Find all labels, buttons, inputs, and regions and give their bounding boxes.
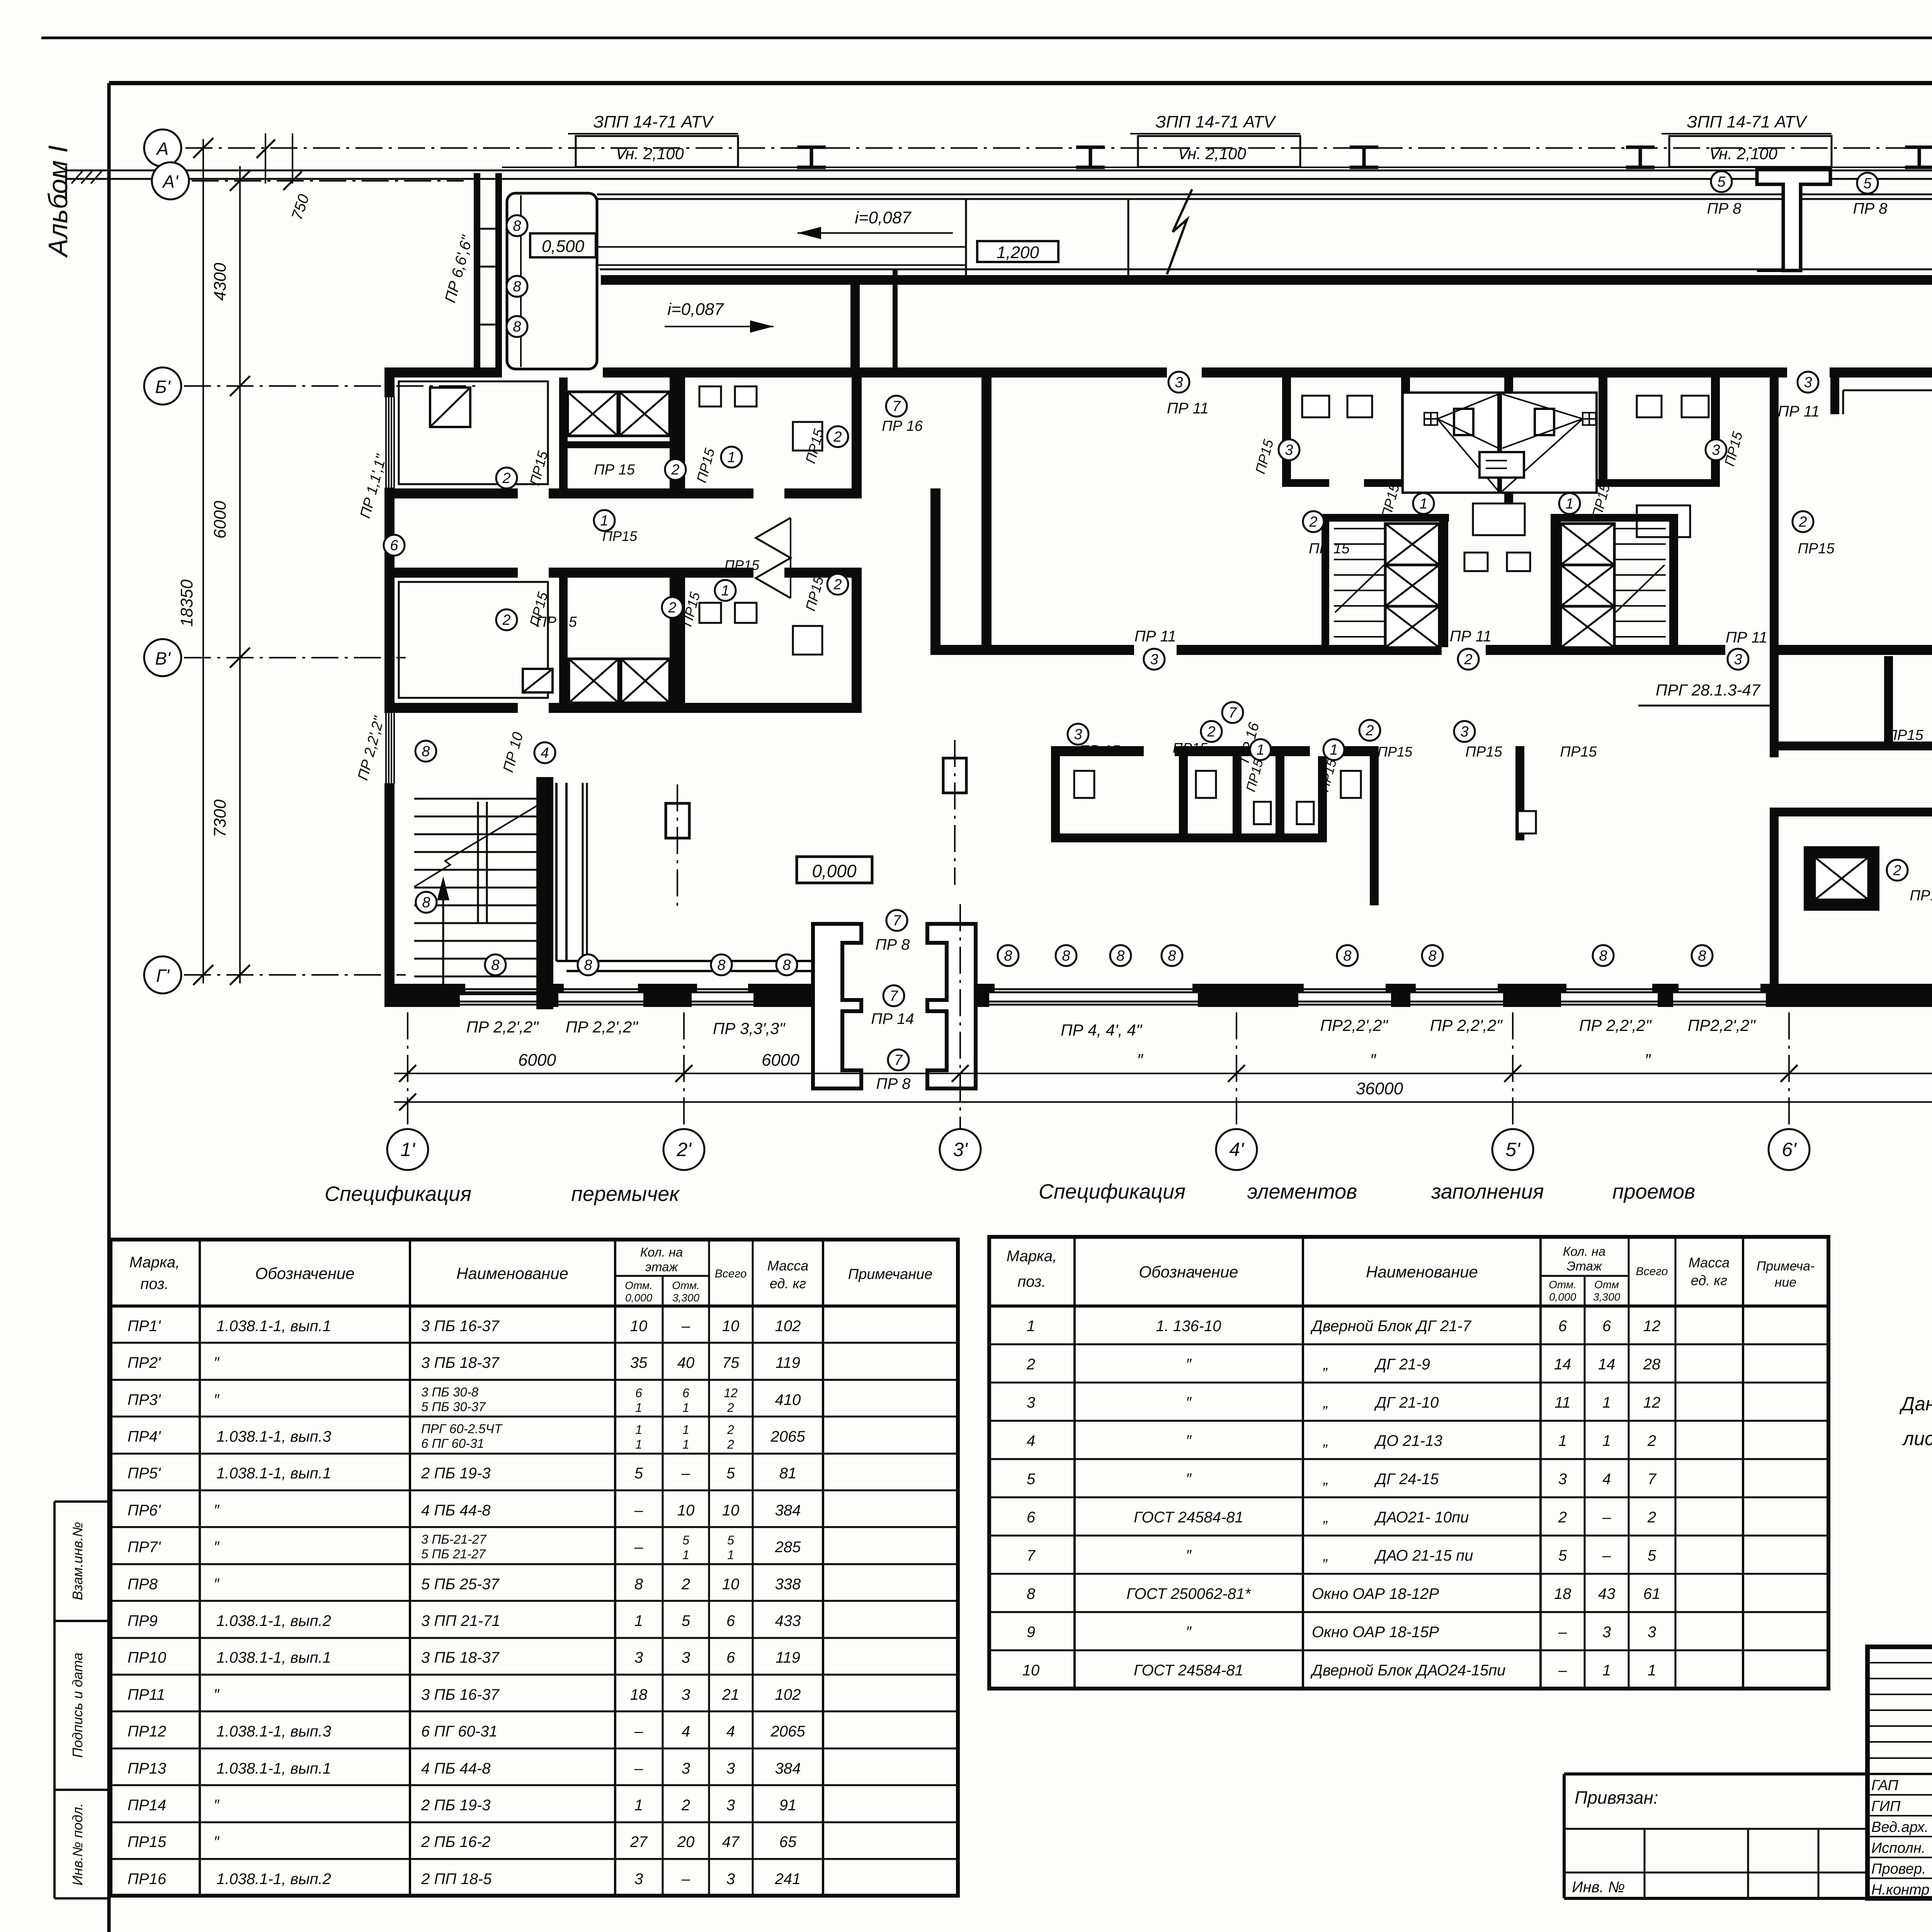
lintel table row texts [128,1318,805,1888]
svg-text:элементов: элементов [1247,1180,1357,1203]
svg-text:1.038.1-1, вып.1: 1.038.1-1, вып.1 [216,1465,331,1482]
svg-text:410: 410 [775,1391,801,1408]
svg-text:1: 1 [634,1797,643,1814]
svg-text:8: 8 [1004,948,1012,964]
svg-text:∇н. 2,100: ∇н. 2,100 [614,145,684,163]
svg-text:„: „ [1323,1471,1328,1488]
svg-text:ПР 11: ПР 11 [1134,628,1176,645]
svg-text:ние: ние [1775,1275,1797,1290]
svg-text:3 ПБ 18-37: 3 ПБ 18-37 [421,1649,500,1666]
svg-text:1: 1 [1648,1662,1656,1679]
svg-text:А: А [156,139,169,159]
svg-text:Примечание: Примечание [848,1266,933,1282]
svg-text:338: 338 [775,1576,801,1593]
svg-text:7: 7 [889,988,898,1004]
svg-text:Окно ОАР 18-15Р: Окно ОАР 18-15Р [1312,1624,1439,1641]
right rooms walls [1779,742,1884,750]
svg-text:Отм.: Отм. [625,1279,653,1291]
svg-text:ДГ 24-15: ДГ 24-15 [1374,1471,1439,1488]
svg-text:27: 27 [630,1833,648,1850]
attachment box [1564,1774,1867,1898]
svg-text:8: 8 [513,218,521,234]
left stamp boxes [54,1502,109,1898]
room A1 inner lining [399,381,548,484]
svg-text:Отм: Отм [1594,1279,1619,1291]
entrance labels [886,910,907,931]
gallery strip bottom thick wall [601,275,1932,285]
svg-text:6: 6 [1558,1318,1567,1335]
svg-text:Данный лист см. совместно с: Данный лист см. совместно с [1899,1393,1932,1415]
PR15 labels cluster [1068,724,1088,745]
corridor south wall segments [940,645,1134,655]
corner duct box A1 [430,388,470,427]
axis horizontal dash lines [192,180,464,182]
svg-text:ПР8: ПР8 [128,1576,158,1593]
svg-text:Дверной Блок ДАО24-15пи: Дверной Блок ДАО24-15пи [1310,1662,1505,1679]
svg-text:ПР14: ПР14 [128,1797,166,1814]
left entry ramp tower [474,173,480,373]
svg-text:″: ″ [214,1686,220,1703]
svg-text:81: 81 [779,1465,797,1482]
svg-text:3 ПБ 16-37: 3 ПБ 16-37 [421,1318,500,1335]
svg-text:3: 3 [1558,1471,1567,1488]
svg-text:2: 2 [1365,723,1374,739]
svg-text:ПР 15: ПР 15 [594,462,635,478]
sanitary block partitions [1282,378,1291,487]
svg-text:ПР 16: ПР 16 [882,418,923,434]
stair enclosure wall [536,777,553,1009]
svg-text:3: 3 [682,1649,690,1666]
stair core right [1551,514,1678,522]
svg-text:1: 1 [1419,496,1427,512]
svg-text:1: 1 [682,1423,689,1437]
svg-text:7: 7 [1648,1471,1657,1488]
svg-text:8: 8 [1062,948,1070,964]
svg-text:–: – [681,1318,690,1335]
svg-text:Спецификация: Спецификация [1039,1180,1185,1203]
signature column texts [1871,1777,1932,1898]
svg-text:1.038.1-1, вып.2: 1.038.1-1, вып.2 [216,1612,331,1629]
svg-text:ПР 11: ПР 11 [1167,400,1209,417]
axis A dash-dot line [185,147,1932,149]
svg-text:5: 5 [634,1465,643,1482]
svg-text:8: 8 [422,743,430,760]
svg-text:∇н. 2,100: ∇н. 2,100 [1177,145,1246,163]
svg-text:–: – [1602,1547,1611,1564]
corner duct box B [523,669,553,692]
svg-text:2: 2 [727,1401,734,1415]
svg-text:„: „ [1323,1547,1328,1564]
svg-text:2 ПБ 19-3: 2 ПБ 19-3 [421,1797,491,1814]
entrance pier right [927,924,976,1088]
svg-text:3: 3 [726,1797,735,1814]
svg-text:ГОСТ 24584-81: ГОСТ 24584-81 [1134,1662,1243,1679]
svg-text:3 ПБ 30-8: 3 ПБ 30-8 [421,1385,479,1399]
svg-text:заполнения: заполнения [1431,1180,1544,1203]
svg-text:–: – [681,1871,690,1888]
svg-text:2': 2' [676,1139,692,1160]
building bottom exterior wall [384,984,460,1007]
svg-text:3 ПБ 18-37: 3 ПБ 18-37 [421,1354,500,1371]
svg-text:Взам.инв.№: Взам.инв.№ [70,1522,85,1600]
left block A walls [559,378,568,488]
svg-text:i=0,087: i=0,087 [855,208,912,227]
svg-text:2065: 2065 [770,1723,806,1740]
svg-text:1: 1 [600,513,608,529]
svg-text:2: 2 [1798,514,1807,530]
svg-text:ПР 15: ПР 15 [1079,743,1120,759]
svg-text:″: ″ [214,1354,220,1371]
svg-text:поз.: поз. [1017,1273,1046,1290]
svg-text:36000: 36000 [1356,1079,1403,1098]
svg-text:Инв. №: Инв. № [1572,1879,1625,1896]
svg-text:1.038.1-1, вып.1: 1.038.1-1, вып.1 [216,1760,331,1777]
svg-text:ПР16: ПР16 [128,1871,167,1888]
svg-text:″: ″ [1186,1624,1192,1641]
svg-text:Отм.: Отм. [672,1279,700,1291]
section pillar marks [666,803,689,838]
svg-text:20: 20 [677,1833,695,1850]
svg-text:Н.контр: Н.контр [1871,1882,1929,1898]
svg-text:6000: 6000 [518,1051,556,1070]
svg-text:8: 8 [584,957,592,973]
svg-text:″: ″ [1645,1051,1651,1070]
svg-text:6: 6 [726,1649,735,1666]
svg-text:ДГ 21-10: ДГ 21-10 [1374,1394,1439,1411]
svg-text:Обозначение: Обозначение [1139,1263,1238,1281]
svg-text:4': 4' [1229,1139,1244,1160]
svg-text:119: 119 [776,1649,800,1666]
svg-text:75: 75 [722,1354,740,1371]
svg-text:47: 47 [722,1833,740,1850]
svg-text:2: 2 [1464,651,1472,668]
svg-text:2: 2 [833,577,842,593]
svg-text:3: 3 [1712,442,1720,458]
svg-text:65: 65 [779,1833,797,1850]
svg-text:28: 28 [1643,1356,1661,1373]
svg-text:1.038.1-1, вып.2: 1.038.1-1, вып.2 [216,1871,331,1888]
small fixtures rooms A2/B2 [699,386,721,406]
svg-text:1,200: 1,200 [997,243,1039,262]
svg-text:ПР 8: ПР 8 [1707,200,1742,217]
svg-text:2: 2 [833,429,842,445]
svg-text:2: 2 [1309,514,1317,530]
dimension line 36000 [394,1101,1932,1103]
svg-text:14: 14 [1554,1356,1571,1373]
svg-text:–: – [634,1539,643,1556]
svg-text:3: 3 [1027,1394,1035,1411]
svg-text:91: 91 [779,1797,797,1814]
svg-text:ДАО 21-15 пи: ДАО 21-15 пи [1374,1547,1473,1564]
svg-text:ПР 11: ПР 11 [1778,403,1820,420]
svg-text:Провер.: Провер. [1871,1861,1926,1877]
canopy T column mid-right [1757,170,1830,270]
left wall window labels [415,741,436,762]
svg-text:12: 12 [724,1386,738,1400]
svg-text:ГАП: ГАП [1871,1777,1898,1794]
svg-text:Вед.арх.: Вед.арх. [1871,1819,1929,1835]
svg-text:3: 3 [1602,1624,1611,1641]
dimension line 6000s [394,1073,1932,1074]
svg-text:Б': Б' [155,377,171,397]
svg-text:14: 14 [1598,1356,1616,1373]
cluster partitions [1051,756,1060,842]
svg-text:этаж: этаж [645,1260,679,1274]
svg-text:Масса: Масса [1689,1255,1730,1270]
svg-text:7: 7 [1228,705,1237,721]
svg-text:8: 8 [1116,948,1124,964]
svg-text:5: 5 [682,1533,689,1547]
svg-text:1.038.1-1, вып.3: 1.038.1-1, вып.3 [216,1723,331,1740]
svg-text:5 ПБ 30-37: 5 ПБ 30-37 [421,1400,486,1414]
svg-text:1: 1 [682,1548,689,1562]
svg-text:6': 6' [1782,1139,1797,1160]
svg-text:ПР11: ПР11 [128,1686,165,1703]
svg-text:5: 5 [1558,1547,1567,1564]
circled 8 marks above windows [485,954,506,975]
svg-text:Марка,: Марка, [1007,1248,1057,1265]
svg-text:ЗПП 14-71 АТV: ЗПП 14-71 АТV [1687,112,1808,131]
corridor double door leaves [756,518,791,598]
svg-text:ПР 11: ПР 11 [1450,628,1492,645]
svg-text:10: 10 [722,1318,740,1335]
svg-text:″: ″ [1186,1432,1192,1449]
right lift shaft [1804,846,1879,911]
svg-text:2: 2 [1558,1509,1567,1526]
svg-text:ГОСТ 24584-81: ГОСТ 24584-81 [1134,1509,1243,1526]
svg-text:перемычек: перемычек [571,1182,680,1206]
svg-text:1. 136-10: 1. 136-10 [1156,1318,1221,1335]
svg-text:5: 5 [682,1612,690,1629]
svg-text:Инв.№ подл.: Инв.№ подл. [70,1803,85,1885]
hall partition wall [981,378,992,655]
bottom wall window sills [460,988,545,990]
room B1 inner lining [399,582,548,698]
svg-text:–: – [634,1502,643,1519]
svg-text:ПР7': ПР7' [128,1539,161,1556]
svg-text:2: 2 [1026,1356,1035,1373]
svg-text:ПР 2,2',2": ПР 2,2',2" [466,1018,539,1036]
svg-text:1: 1 [1602,1662,1611,1679]
svg-text:1: 1 [635,1437,642,1451]
svg-text:ПР 14: ПР 14 [871,1010,914,1027]
svg-text:5: 5 [1717,174,1726,190]
svg-text:1: 1 [721,583,729,599]
svg-text:Исполн.: Исполн. [1871,1840,1925,1856]
svg-text:″: ″ [214,1833,220,1850]
break zigzag [1167,189,1192,274]
svg-text:–: – [1558,1662,1567,1679]
svg-text:4 ПБ 44-8: 4 ПБ 44-8 [421,1502,491,1519]
svg-text:8: 8 [491,957,499,973]
svg-text:2: 2 [1647,1432,1656,1449]
svg-text:6 ПГ 60-31: 6 ПГ 60-31 [421,1436,484,1451]
svg-text:2: 2 [727,1423,734,1437]
svg-text:″: ″ [214,1797,220,1814]
svg-text:ПР15: ПР15 [1378,744,1413,760]
svg-text:5: 5 [726,1465,735,1482]
svg-text:4: 4 [1602,1471,1611,1488]
svg-text:1: 1 [682,1437,689,1451]
svg-text:ПР4': ПР4' [128,1428,161,1445]
svg-text:35: 35 [630,1354,648,1371]
svg-text:6 ПГ 60-31: 6 ПГ 60-31 [421,1723,498,1740]
svg-text:Обозначение: Обозначение [255,1264,354,1282]
main staircase treads [414,798,537,800]
svg-text:40: 40 [677,1354,695,1371]
svg-text:i=0,087: i=0,087 [667,300,724,319]
svg-text:ПР6': ПР6' [128,1502,161,1519]
svg-text:1: 1 [682,1401,689,1415]
svg-text:2 ПП 18-5: 2 ПП 18-5 [421,1871,492,1888]
building left exterior wall [384,367,395,397]
svg-text:3: 3 [1150,651,1158,668]
gallery strip bottom thin line [600,269,1932,270]
svg-text:6: 6 [682,1386,689,1400]
750 dimension [265,133,266,184]
svg-text:1: 1 [1330,742,1338,758]
lift shafts block B [569,659,619,703]
svg-text:Альбом I: Альбом I [43,145,73,258]
ramp right side wall [850,275,860,367]
svg-text:2 ПБ 19-3: 2 ПБ 19-3 [421,1465,491,1482]
svg-text:3: 3 [1074,726,1082,743]
lobby furniture [1464,553,1488,571]
left dimension chain outer 18350 [202,139,204,983]
svg-text:″: ″ [1370,1051,1376,1070]
left wall window sills [385,397,387,488]
svg-text:10: 10 [677,1502,695,1519]
svg-text:18: 18 [630,1686,648,1703]
ramp divider verticals [965,199,967,275]
svg-text:Дверной Блок ДГ 21-7: Дверной Блок ДГ 21-7 [1310,1318,1472,1335]
svg-text:8: 8 [513,319,521,335]
svg-text:Г': Г' [156,966,170,986]
svg-text:ПР15: ПР15 [1910,888,1932,904]
svg-text:2: 2 [502,612,510,628]
svg-text:Примеча-: Примеча- [1757,1259,1815,1274]
svg-text:6000: 6000 [762,1051,799,1070]
svg-text:Окно ОАР 18-12Р: Окно ОАР 18-12Р [1312,1585,1439,1602]
svg-text:119: 119 [776,1354,800,1371]
entrance pier left [813,924,861,1088]
svg-text:ГИП: ГИП [1871,1798,1901,1815]
svg-text:2: 2 [727,1437,734,1451]
svg-text:3: 3 [1175,374,1183,391]
svg-text:8: 8 [782,957,791,973]
svg-text:3: 3 [1460,724,1468,740]
svg-text:ПР 2,2',2": ПР 2,2',2" [566,1018,639,1036]
svg-text:2: 2 [681,1797,690,1814]
svg-text:ДАО21- 10пи: ДАО21- 10пи [1374,1509,1469,1526]
svg-text:ПР1': ПР1' [128,1318,161,1335]
svg-text:″: ″ [214,1502,220,1519]
svg-text:3: 3 [1648,1624,1656,1641]
right section upper west wall [1770,378,1779,647]
svg-text:ед. кг: ед. кг [770,1276,806,1291]
axis extension dash-dot lines [407,1012,408,1128]
svg-text:3 ПП 21-71: 3 ПП 21-71 [421,1612,500,1629]
svg-text:12: 12 [1643,1394,1661,1411]
stair stringer [477,802,479,923]
svg-text:ПР2,2',2": ПР2,2',2" [1688,1016,1756,1034]
svg-text:7: 7 [894,1052,903,1068]
svg-text:Кол. на: Кол. на [1563,1244,1606,1259]
svg-text:ПР2,2',2": ПР2,2',2" [1320,1016,1389,1034]
svg-text:∇н. 2,100: ∇н. 2,100 [1708,145,1777,163]
svg-text:–: – [1558,1624,1567,1641]
left dimension chain inner [239,166,241,983]
svg-text:1: 1 [727,449,735,466]
svg-text:1': 1' [400,1139,415,1160]
svg-text:ЗПП 14-71 АТV: ЗПП 14-71 АТV [1156,112,1277,131]
svg-text:102: 102 [775,1318,801,1335]
svg-text:6: 6 [1602,1318,1611,1335]
svg-text:3: 3 [1734,651,1742,668]
svg-text:1: 1 [1602,1394,1611,1411]
svg-text:„: „ [1323,1509,1328,1526]
svg-text:–: – [1602,1509,1611,1526]
svg-text:Кол. на: Кол. на [640,1245,683,1259]
axis A1 canopy double line [66,170,1932,172]
svg-text:ПР 8: ПР 8 [876,1075,911,1092]
svg-text:ПР10: ПР10 [128,1649,166,1666]
lift shafts block A [568,392,618,436]
lone wall with fixture [1515,746,1524,840]
svg-text:5: 5 [1863,175,1872,192]
svg-text:3: 3 [1285,442,1293,458]
svg-text:″: ″ [1186,1471,1192,1488]
svg-text:–: – [634,1723,643,1740]
svg-text:0,500: 0,500 [542,237,585,256]
svg-text:11: 11 [1554,1394,1571,1411]
svg-text:0,000: 0,000 [812,861,857,881]
svg-text:384: 384 [775,1502,801,1519]
svg-text:3: 3 [634,1649,643,1666]
svg-text:8: 8 [422,895,430,911]
svg-text:ПР 3,3',3": ПР 3,3',3" [713,1019,786,1037]
svg-text:6: 6 [635,1386,642,1400]
drawing frame left [107,83,111,1932]
svg-text:8: 8 [1599,948,1607,964]
corridor connector wall [930,488,940,655]
svg-text:21: 21 [722,1686,740,1703]
svg-text:Привязан:: Привязан: [1575,1787,1658,1808]
svg-text:8: 8 [1027,1585,1036,1602]
svg-text:433: 433 [775,1612,801,1629]
svg-text:8: 8 [513,279,521,295]
svg-text:3': 3' [953,1139,968,1160]
svg-text:285: 285 [775,1539,801,1556]
svg-text:6: 6 [1027,1509,1036,1526]
svg-text:1: 1 [635,1401,642,1415]
building top exterior wall [384,367,502,378]
right section partition [1884,656,1893,750]
svg-text:ПР3': ПР3' [128,1391,161,1408]
svg-text:7: 7 [893,913,901,929]
svg-text:2: 2 [681,1576,690,1593]
svg-text:″: ″ [1186,1356,1192,1373]
svg-text:384: 384 [775,1760,801,1777]
stair break line [414,806,537,887]
svg-text:ПР15: ПР15 [1560,744,1597,760]
svg-text:ПР 2,2',2": ПР 2,2',2" [1579,1016,1652,1034]
gallery strip top edge [597,194,1932,196]
svg-text:проемов: проемов [1612,1180,1695,1203]
svg-text:1: 1 [634,1612,643,1629]
svg-text:ПРГ 28.1.3-47: ПРГ 28.1.3-47 [1656,681,1761,699]
svg-text:1.038.1-1, вып.1: 1.038.1-1, вып.1 [216,1649,331,1666]
